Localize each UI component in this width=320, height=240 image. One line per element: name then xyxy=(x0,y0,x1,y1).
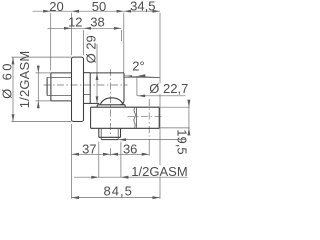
svg-text:37: 37 xyxy=(82,141,96,156)
arrow left xyxy=(72,196,80,199)
extension line x=49.8 (stub end) xyxy=(50,13,52,71)
arrow down at 103.4 xyxy=(96,96,99,103)
boss bottom xyxy=(84,102,100,104)
arrow up xyxy=(37,66,40,73)
dimension line row2 y=28.3 xyxy=(48,27,122,29)
lower threaded stub xyxy=(99,128,121,139)
arrow up xyxy=(12,57,15,64)
svg-text:1/2GASM: 1/2GASM xyxy=(131,164,187,179)
centerline outlet axis xyxy=(128,115,164,117)
arrow right at 110.5 xyxy=(103,153,111,156)
dimension Ø60 (flange) xyxy=(11,57,71,121)
svg-text:Ø 60: Ø 60 xyxy=(0,61,15,99)
stub root bottom xyxy=(47,95,71,97)
dimension 1/2GASM (wall thread) xyxy=(36,65,51,108)
underline xyxy=(137,95,186,97)
root right xyxy=(117,128,119,139)
dim line xyxy=(72,153,150,155)
dimension chain row 2 (12 / 38) xyxy=(48,27,122,55)
sloped ray 2deg xyxy=(125,76,160,78)
tube edge xyxy=(136,107,138,128)
union nut / outlet xyxy=(91,107,160,128)
nut left xyxy=(90,107,92,128)
dim line xyxy=(72,197,161,199)
stub crest top xyxy=(51,72,72,74)
arrow pointing left xyxy=(137,95,145,98)
dim line xyxy=(96,44,98,103)
dim line xyxy=(74,176,188,178)
arrow right at 98.8 xyxy=(91,176,99,179)
stub crest bottom xyxy=(51,100,72,102)
threaded stub (wall side) xyxy=(47,73,71,101)
boss top xyxy=(84,72,91,74)
dimension Ø 22,7 (ball) xyxy=(137,76,186,97)
dimension 1/2GASM (lower stub) xyxy=(74,142,188,179)
ext bottom xyxy=(36,100,51,102)
arrow at 124 pointing left xyxy=(124,10,131,13)
arrow right at 149.2 xyxy=(142,153,150,156)
arrow down xyxy=(37,101,40,108)
ext x=110.5 xyxy=(110,148,112,156)
arrow at 71.5 pointing right xyxy=(64,27,72,30)
extension line x=121.5 xyxy=(121,30,123,41)
nut bottom xyxy=(91,127,160,129)
dimension 2 degrees xyxy=(124,74,160,77)
ext top y=107.2 xyxy=(159,106,190,108)
dimension chain row 1 (20 / 50 / 34,5) xyxy=(33,10,161,199)
reference line stub end xyxy=(119,138,187,141)
arrow down xyxy=(12,114,15,121)
ext bottom xyxy=(11,121,71,123)
ext x=149.2 xyxy=(148,139,150,156)
extension line x=71.5 (flange back face) xyxy=(71,13,73,56)
end face xyxy=(101,139,118,141)
dimension 19,5 xyxy=(159,100,190,136)
svg-text:Ø 22,7: Ø 22,7 xyxy=(149,81,188,96)
svg-text:50: 50 xyxy=(92,0,106,14)
ball collar ring xyxy=(97,105,125,107)
extension line x=83.5 xyxy=(83,30,85,55)
arrow at 83.5 pointing left xyxy=(84,27,92,30)
arrow left at 71.5 xyxy=(72,153,80,156)
arrow at 71.5 pointing left xyxy=(72,10,80,13)
dimension Ø29 (boss) xyxy=(96,44,99,103)
dimension 84,5 xyxy=(72,196,161,199)
svg-text:36: 36 xyxy=(123,141,137,156)
nut-tube junction squiggle xyxy=(134,107,135,128)
nut right xyxy=(158,107,160,128)
leader vertical xyxy=(136,76,138,96)
svg-text:20: 20 xyxy=(49,0,63,14)
arrow on sloped ray left xyxy=(125,75,133,77)
extension line x=124 (body right) xyxy=(123,13,125,73)
ext bottom y=127.9 xyxy=(159,127,190,129)
svg-text:19,5: 19,5 xyxy=(175,129,190,154)
extension line x=160 (apex) full height xyxy=(159,13,161,199)
svg-text:1/2GASM: 1/2GASM xyxy=(17,51,32,109)
ext x=71.5 lower xyxy=(71,124,73,199)
svg-text:12: 12 xyxy=(68,14,82,29)
stub end face xyxy=(46,78,48,96)
body top edge xyxy=(90,72,124,74)
ext top xyxy=(11,56,71,58)
ext left x=98.8 xyxy=(98,142,100,178)
centerline vertical axis xyxy=(110,69,112,138)
boss step xyxy=(84,94,91,96)
svg-text:2°: 2° xyxy=(132,58,144,73)
dim line xyxy=(188,100,190,136)
arrow up at 127.9 xyxy=(187,128,190,135)
arrow at 160 pointing right xyxy=(153,10,161,13)
stub root top xyxy=(47,77,71,79)
body left edge xyxy=(89,73,91,104)
root left xyxy=(100,128,102,139)
arrow down at 107.2 xyxy=(187,100,190,108)
svg-text:34,5: 34,5 xyxy=(130,0,155,14)
svg-text:84,5: 84,5 xyxy=(104,184,133,199)
ext right x=120.9 xyxy=(120,142,122,178)
body right edge xyxy=(123,73,125,101)
arrow left at 110.5 xyxy=(111,153,119,156)
label Ø 22,7 xyxy=(149,83,189,94)
ext top xyxy=(36,72,51,74)
crest left xyxy=(98,128,100,137)
svg-text:Ø 29: Ø 29 xyxy=(84,35,99,63)
dimension line row1 y=11.2 xyxy=(33,10,161,12)
arrow on sloped ray mid xyxy=(137,74,146,77)
crest bottom xyxy=(99,136,121,138)
centerline outlet thread xyxy=(148,99,150,137)
svg-text:38: 38 xyxy=(90,14,104,29)
horizontal ray xyxy=(124,77,160,79)
arrow left at 120.9 xyxy=(121,176,128,179)
body corner to ring xyxy=(121,101,125,105)
dimension 37 / 36 row xyxy=(72,124,150,199)
boss Ø29 xyxy=(84,73,100,104)
centerline horizontal axis xyxy=(44,84,128,86)
flange plate xyxy=(72,57,84,121)
nut top xyxy=(91,106,160,108)
stub chamfer line xyxy=(50,73,52,101)
arrow at 121.5 pointing right xyxy=(114,27,122,30)
arrow right xyxy=(153,196,161,199)
ball dome xyxy=(100,98,123,105)
body block xyxy=(90,73,124,105)
crest right xyxy=(120,128,122,137)
arrow at 49.8 pointing right xyxy=(43,10,51,13)
arrow at 124 pointing right xyxy=(117,10,124,13)
label 1/2GASM xyxy=(131,165,189,176)
arrow up at 72.9 xyxy=(96,73,99,80)
dim line xyxy=(12,57,14,121)
dim line xyxy=(37,65,39,108)
